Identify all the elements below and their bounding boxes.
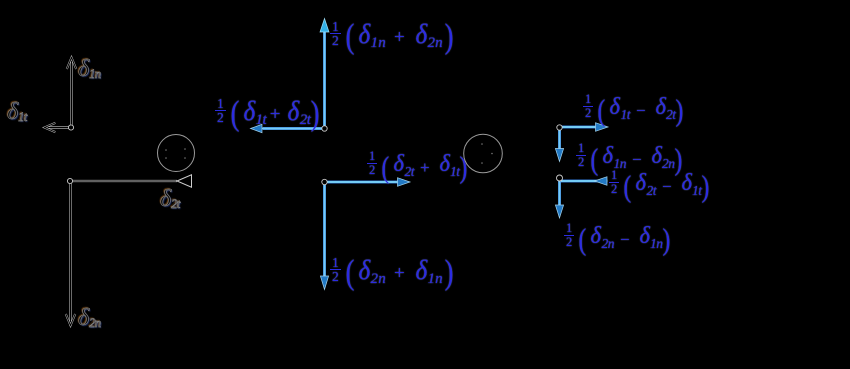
label 1/2(d2n-d1n) xyxy=(564,225,671,253)
wire: vertical arrow shaft up from node A xyxy=(70,60,72,127)
label 1/2(d1t-d2t) right top xyxy=(583,96,684,124)
node E xyxy=(557,125,562,130)
circle marker 1 xyxy=(158,135,195,172)
node A xyxy=(68,125,73,130)
label 1/2(d2t-d1t) xyxy=(609,172,710,200)
label 1/2(d1t+d2t) left middle xyxy=(215,99,320,129)
node F xyxy=(557,175,563,181)
arrowhead up (open barb) of delta_1n arrow xyxy=(67,58,76,70)
label delta_2t xyxy=(160,187,180,211)
arrow (reversed head): 1/2(d2t-d1t) xyxy=(560,177,608,186)
wire: horizontal line from node B to hollow arrowhead xyxy=(70,180,177,182)
label delta_1t xyxy=(7,100,27,124)
label 1/2(d2t+d1t) right of node D xyxy=(367,153,468,181)
arrowhead down (open barb) of delta_2n arrow xyxy=(66,314,75,326)
arrow right: 1/2(d1t-d2t) xyxy=(560,123,609,132)
node D xyxy=(322,179,327,184)
arrow up: 1/2(d1n+d2n) xyxy=(320,19,329,129)
arrow left: 1/2(d1t+d2t) xyxy=(251,124,325,132)
hollow triangle arrowhead (delta_2t) xyxy=(177,175,192,187)
arrow down: 1/2(d2n+d1n) xyxy=(320,182,328,290)
node B xyxy=(67,178,72,183)
label 1/2(d1n+d2n) top middle xyxy=(330,22,454,52)
label 1/2(d1n-d2n) xyxy=(576,145,683,173)
wire: horizontal arrow shaft left from node A xyxy=(47,126,71,128)
arrow down: 1/2(d2n-d1n) xyxy=(555,181,563,218)
wire: vertical line down from node B xyxy=(69,181,71,326)
arrowhead left (open barb) of delta_1t arrow xyxy=(45,123,56,132)
node C xyxy=(322,126,327,131)
label delta_1n xyxy=(78,57,101,81)
label delta_2n xyxy=(78,306,101,330)
arrow down: 1/2(d1n-d2n) xyxy=(555,128,563,162)
circle marker 2 xyxy=(464,134,503,173)
label 1/2(d2n+d1n) bottom middle xyxy=(330,258,454,288)
arrow right: 1/2(d2t+d1t) xyxy=(324,178,410,187)
